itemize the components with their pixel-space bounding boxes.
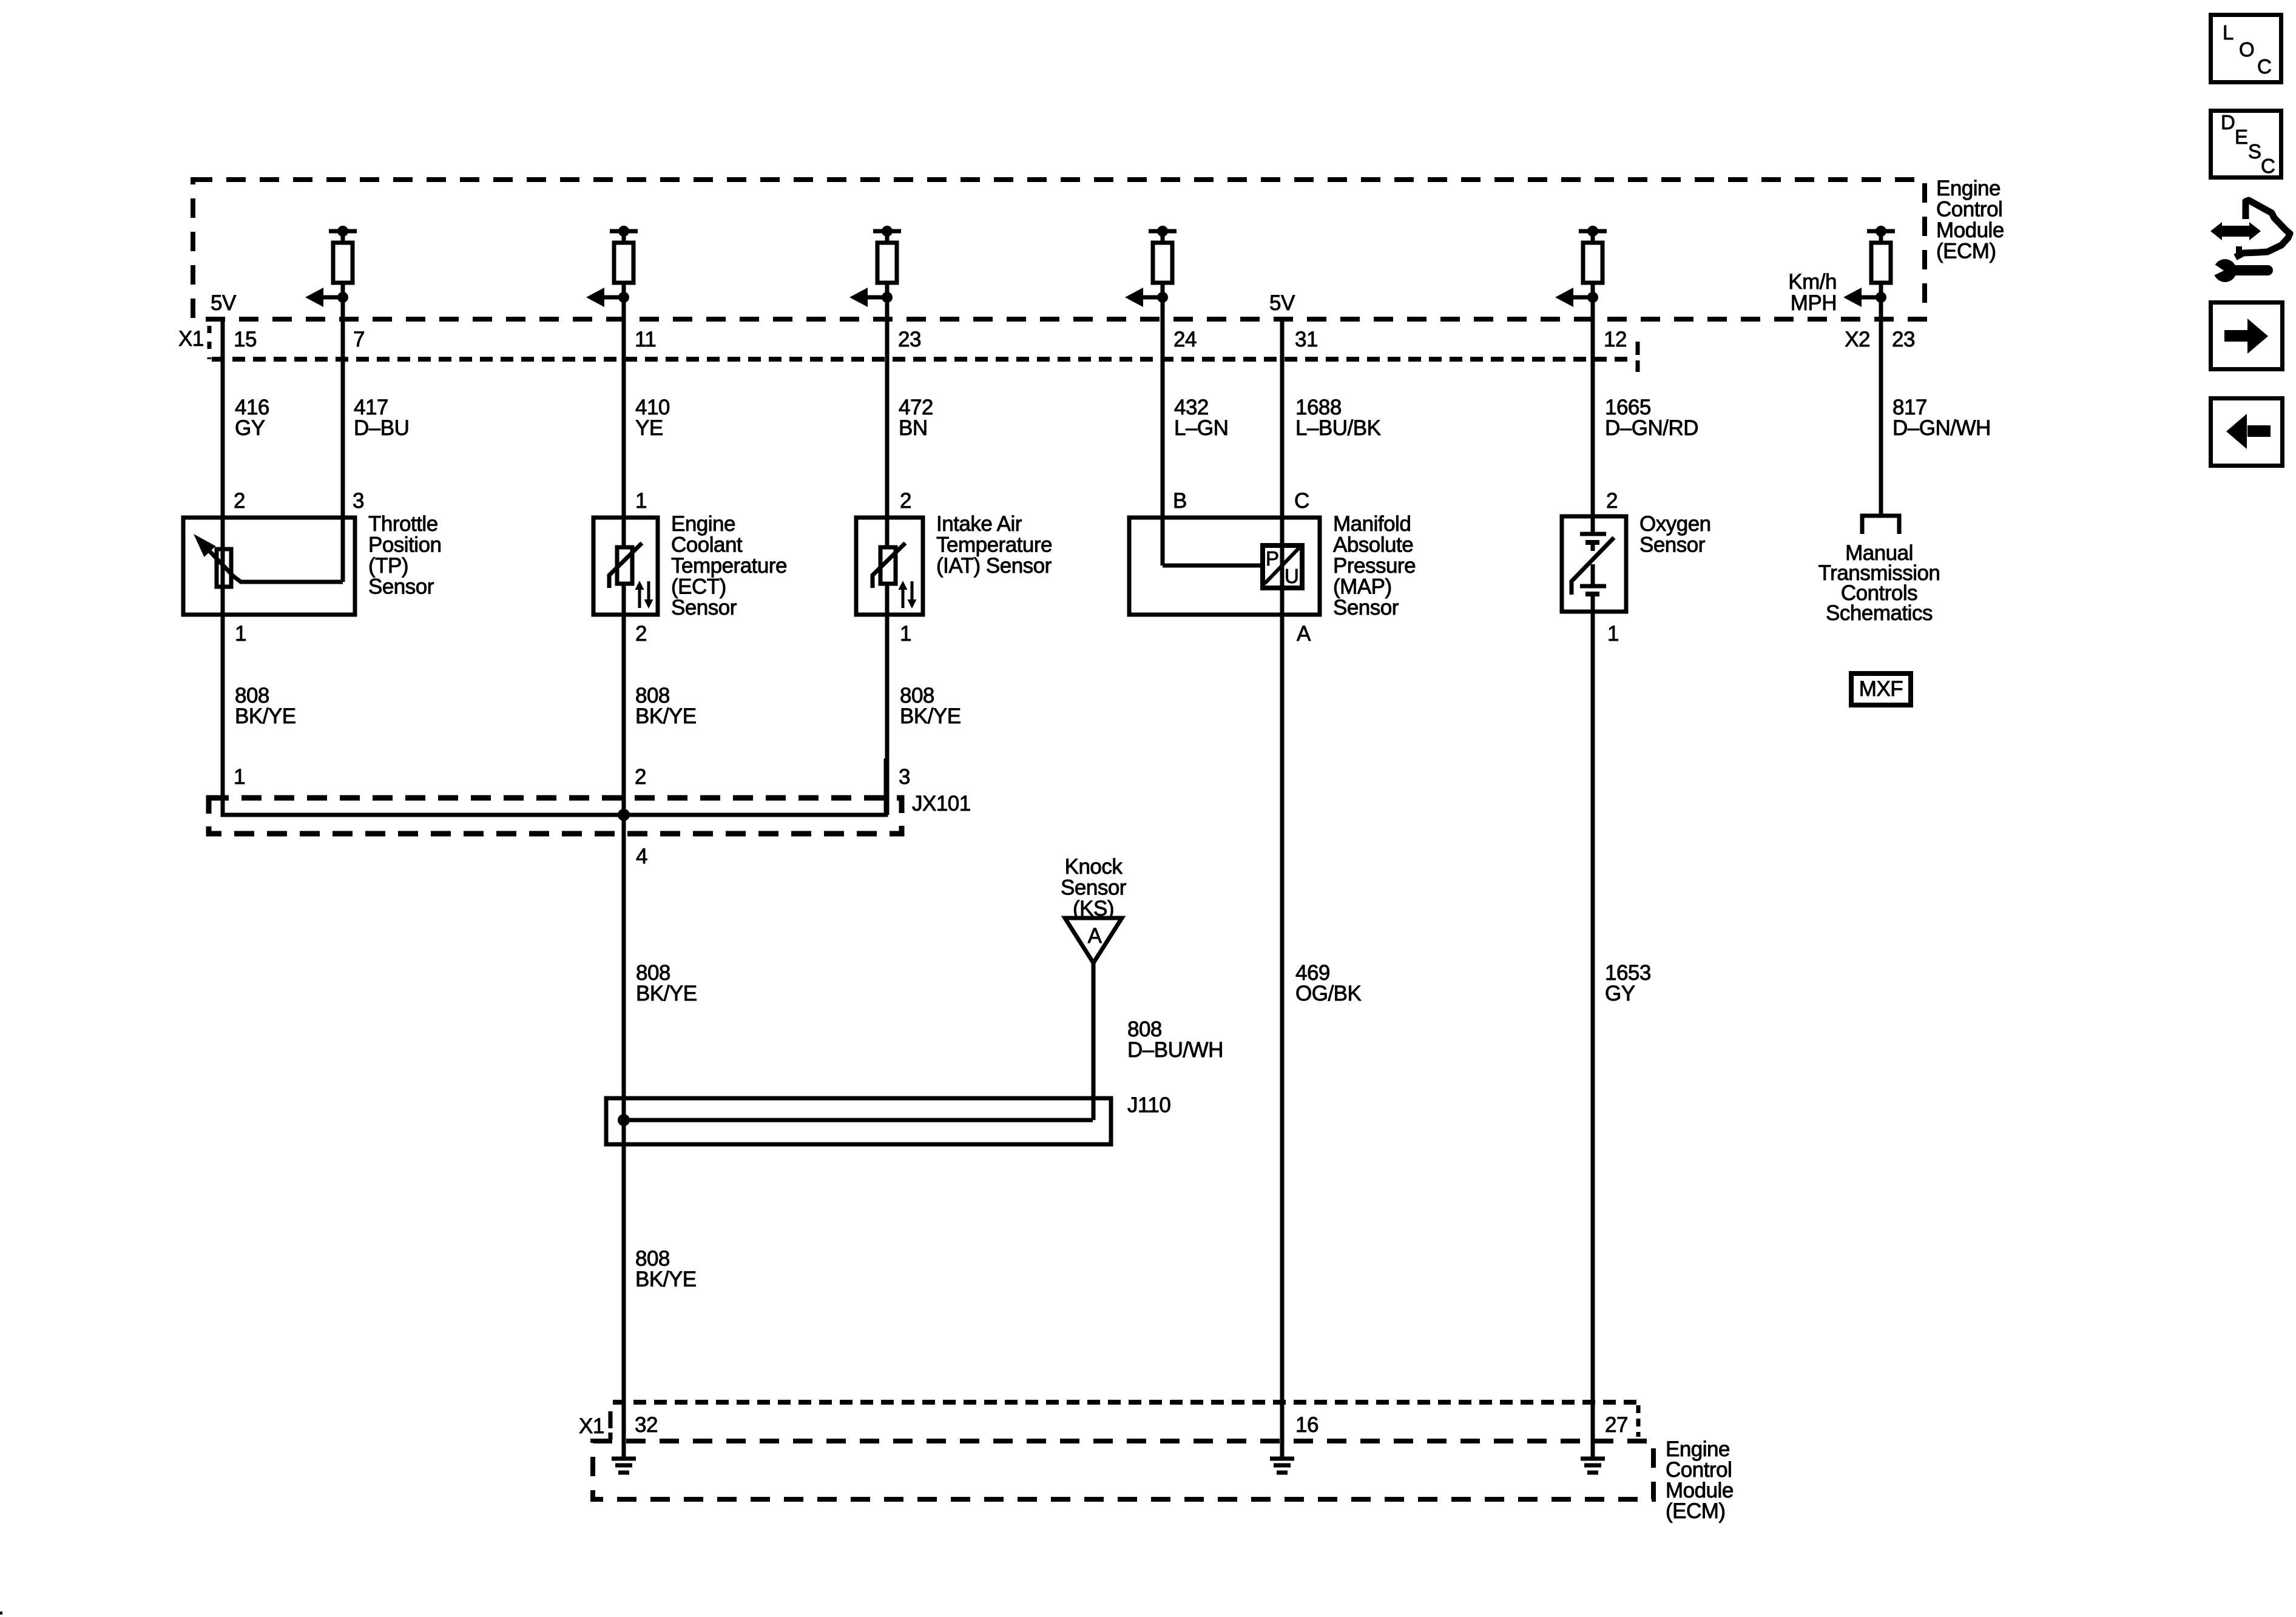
svg-text:BK/YE: BK/YE: [900, 704, 961, 728]
svg-text:BK/YE: BK/YE: [636, 982, 697, 1005]
svg-text:OG/BK: OG/BK: [1295, 982, 1362, 1005]
svg-text:A: A: [1297, 622, 1311, 646]
svg-text:GY: GY: [235, 416, 265, 440]
svg-text:Module: Module: [1936, 218, 2004, 242]
svg-text:C: C: [2257, 55, 2271, 78]
svg-text:GY: GY: [1605, 982, 1635, 1005]
svg-text:3: 3: [899, 765, 910, 789]
svg-text:2: 2: [234, 489, 245, 513]
svg-text:BN: BN: [899, 416, 928, 440]
svg-text:2: 2: [635, 622, 647, 646]
svg-text:4: 4: [636, 845, 647, 868]
svg-text:Sensor: Sensor: [1639, 533, 1706, 557]
svg-text:Position: Position: [368, 533, 442, 557]
svg-text:7: 7: [353, 328, 365, 351]
svg-text:L–BU/BK: L–BU/BK: [1295, 416, 1381, 440]
svg-text:2: 2: [900, 489, 911, 513]
svg-text:D: D: [2221, 111, 2235, 133]
svg-text:Oxygen: Oxygen: [1639, 512, 1711, 536]
svg-text:D–GN/WH: D–GN/WH: [1893, 416, 1991, 440]
svg-text:1: 1: [900, 622, 911, 646]
svg-text:Engine: Engine: [1936, 177, 2001, 200]
svg-text:Coolant: Coolant: [671, 533, 743, 557]
svg-text:O: O: [2239, 38, 2254, 61]
svg-text:(MAP): (MAP): [1333, 575, 1392, 599]
svg-text:X1: X1: [579, 1414, 604, 1438]
svg-text:J110: J110: [1127, 1093, 1170, 1117]
svg-text:1: 1: [1607, 622, 1619, 646]
svg-text:Absolute: Absolute: [1333, 533, 1413, 557]
svg-text:Temperature: Temperature: [671, 554, 787, 578]
svg-text:5V: 5V: [1269, 291, 1295, 315]
svg-text:23: 23: [898, 328, 921, 351]
svg-text:31: 31: [1295, 328, 1318, 351]
svg-text:24: 24: [1173, 328, 1197, 351]
svg-text:3: 3: [353, 489, 364, 513]
svg-text:(IAT) Sensor: (IAT) Sensor: [936, 554, 1052, 578]
svg-text:Intake Air: Intake Air: [936, 512, 1022, 536]
svg-text:C: C: [2261, 155, 2275, 177]
svg-text:E: E: [2235, 126, 2248, 148]
svg-text:Pressure: Pressure: [1333, 554, 1416, 578]
svg-text:BK/YE: BK/YE: [235, 704, 296, 728]
svg-text:B: B: [1173, 489, 1187, 513]
svg-text:16: 16: [1295, 1413, 1319, 1437]
svg-text:L–GN: L–GN: [1174, 416, 1228, 440]
svg-text:MXF: MXF: [1859, 677, 1903, 701]
svg-text:2: 2: [635, 765, 646, 789]
svg-text:32: 32: [635, 1413, 658, 1437]
svg-text:5V: 5V: [211, 291, 237, 315]
svg-text:Temperature: Temperature: [936, 533, 1052, 557]
svg-text:Engine: Engine: [671, 512, 735, 536]
svg-text:Knock: Knock: [1065, 855, 1123, 879]
svg-text:12: 12: [1604, 328, 1627, 351]
svg-text:A: A: [1088, 924, 1102, 948]
svg-text:BK/YE: BK/YE: [635, 704, 697, 728]
svg-text:1: 1: [635, 489, 647, 513]
svg-text:(TP): (TP): [368, 554, 408, 578]
svg-text:Sensor: Sensor: [368, 575, 434, 599]
svg-text:Sensor: Sensor: [1061, 876, 1127, 900]
svg-text:Schematics: Schematics: [1826, 601, 1933, 625]
svg-text:L: L: [2223, 21, 2234, 44]
svg-text:JX101: JX101: [912, 792, 971, 815]
svg-text:S: S: [2248, 140, 2261, 163]
svg-text:Sensor: Sensor: [671, 596, 737, 619]
svg-text:Km/h: Km/h: [1788, 270, 1837, 294]
svg-text:1: 1: [234, 765, 245, 789]
svg-text:27: 27: [1605, 1413, 1628, 1437]
svg-text:23: 23: [1892, 328, 1915, 351]
svg-text:D–GN/RD: D–GN/RD: [1605, 416, 1698, 440]
svg-text:11: 11: [635, 328, 656, 351]
svg-text:MPH: MPH: [1791, 291, 1837, 315]
svg-text:Manifold: Manifold: [1333, 512, 1411, 536]
svg-text:X1: X1: [178, 327, 204, 351]
svg-text:Control: Control: [1936, 198, 2002, 221]
svg-text:P: P: [1266, 547, 1279, 570]
svg-text:YE: YE: [635, 416, 663, 440]
svg-text:D–BU/WH: D–BU/WH: [1127, 1038, 1223, 1062]
svg-text:(ECM): (ECM): [1666, 1499, 1726, 1523]
svg-text:2: 2: [1606, 489, 1618, 513]
svg-text:(ECM): (ECM): [1936, 240, 1996, 263]
svg-text:Sensor: Sensor: [1333, 596, 1399, 619]
svg-text:X2: X2: [1845, 328, 1870, 351]
svg-text:BK/YE: BK/YE: [635, 1268, 697, 1291]
svg-text:C: C: [1294, 489, 1309, 513]
svg-text:1: 1: [235, 622, 246, 646]
svg-text:(ECT): (ECT): [671, 575, 726, 599]
svg-text:D–BU: D–BU: [354, 416, 409, 440]
svg-text:Throttle: Throttle: [368, 512, 438, 536]
svg-text:15: 15: [234, 328, 257, 351]
svg-text:U: U: [1285, 565, 1298, 587]
